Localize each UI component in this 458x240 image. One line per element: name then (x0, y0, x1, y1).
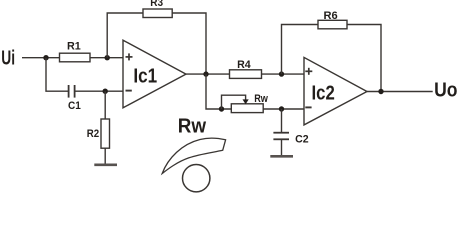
wire R2 top leg (104, 91, 106, 119)
node junction dot Rw / C2 / -input Ic2 (279, 106, 284, 111)
node junction dot R4 / R6 / +input Ic2 (279, 71, 284, 76)
node junction dot wiper tie (219, 106, 224, 111)
ground for C2 (270, 155, 293, 158)
node Rw knob circle (183, 165, 210, 192)
svg-text:R3: R3 (150, 0, 163, 9)
svg-text:Uo: Uo (434, 79, 457, 102)
svg-text:C2: C2 (295, 134, 309, 146)
wire C1 branch from input node (46, 58, 69, 91)
wire R6 right leg to output node (347, 25, 381, 92)
capacitor C2 (273, 133, 308, 146)
wire C1 to minus input (75, 90, 123, 92)
wire R3 right leg to output node (172, 13, 206, 74)
svg-text:C1: C1 (68, 100, 81, 112)
wire Rw to Ic2 minus input (263, 108, 304, 110)
svg-text:Ic2: Ic2 (312, 82, 335, 105)
potentiometer Rw (222, 93, 269, 113)
node Rw knob pointer swoosh (162, 138, 225, 173)
node junction dot at Ui/C1 branch (43, 55, 48, 60)
wire C2 top leg (281, 109, 283, 132)
op-amp U1 Ic1 (123, 40, 186, 108)
svg-text:R2: R2 (87, 128, 99, 140)
ground for R2 (94, 164, 117, 167)
node junction dot R1 / R3 / +input (105, 55, 110, 60)
svg-text:Ic1: Ic1 (133, 65, 157, 88)
resistor R2 (87, 119, 110, 148)
op-amp U2 Ic2 (304, 57, 367, 125)
wire C2 bottom leg (281, 139, 283, 155)
resistor R3 (143, 0, 172, 17)
wire R6 left leg (282, 25, 319, 75)
capacitor C1 (68, 85, 81, 112)
svg-text:R4: R4 (237, 59, 251, 71)
svg-text:Rw: Rw (254, 93, 268, 105)
svg-text:R6: R6 (324, 10, 338, 22)
wire Ui to R1 (22, 57, 60, 59)
resistor R6 (318, 10, 347, 29)
wire Ic1 output (186, 73, 230, 75)
svg-text:Ui: Ui (1, 47, 15, 70)
svg-text:Rw: Rw (178, 114, 206, 137)
node junction dot C1 / R2 / -input (103, 89, 108, 94)
wire Rw branch down from output node (206, 74, 231, 109)
resistor R1 (60, 40, 91, 61)
svg-text:R1: R1 (67, 40, 81, 52)
node junction dot Ic2 output (378, 89, 383, 94)
node junction dot Ic1 output (203, 71, 208, 76)
wire R3 left leg (107, 13, 143, 58)
resistor R4 (230, 59, 262, 78)
wire R1 to op-amp node (90, 57, 123, 59)
wire Ic2 output to Uo (367, 91, 433, 93)
wire R4 to Ic2 plus input (262, 73, 305, 75)
wire R2 bottom leg (104, 148, 106, 164)
